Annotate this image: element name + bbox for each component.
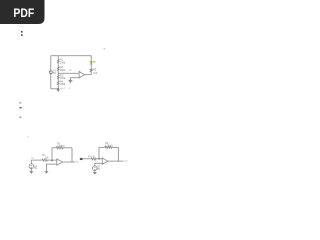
wire feedback down right (117, 147, 119, 161)
label R2 100k (60, 65, 66, 72)
wire feedback vertical left (51, 148, 53, 160)
ground at divider bottom (57, 89, 60, 91)
voltage source V1b (29, 164, 34, 169)
faint dot node label (104, 48, 106, 49)
resistor R3 (57, 75, 59, 79)
label R1c 100k (105, 142, 113, 147)
PDF badge (0, 0, 45, 24)
wire opamp output (84, 74, 91, 76)
wire output right (108, 160, 124, 162)
svg-text:5V: 5V (34, 167, 37, 170)
resistor R1c feedback (105, 146, 113, 148)
resistor R2 (57, 67, 59, 71)
wire divider vertical (57, 56, 59, 89)
label R5 (93, 69, 98, 75)
svg-text:5V: 5V (97, 168, 100, 171)
wire V2 to ground (94, 170, 96, 172)
colon (21, 31, 23, 36)
svg-text:out: out (124, 160, 128, 163)
wire V1b to input (30, 160, 32, 164)
LED D1 (90, 61, 96, 64)
svg-text:0: 0 (73, 81, 75, 83)
resistor R1 (57, 59, 59, 63)
wire feedback top right (63, 147, 72, 149)
label R1 100k (60, 58, 66, 65)
wire -input to ground (70, 78, 79, 80)
ground V2 (93, 171, 97, 173)
voltage source V1 (49, 71, 52, 74)
svg-text:100: 100 (93, 72, 98, 75)
label R2b (42, 154, 49, 160)
wire V1b to ground (30, 169, 32, 172)
label V2 (97, 166, 101, 171)
resistor R1b feedback (56, 147, 64, 149)
resistor R5 (LED series) (90, 69, 92, 72)
ground under -input (68, 79, 72, 81)
faint dot (27, 136, 28, 137)
wire feedback top left (52, 147, 56, 149)
wire feedback vertical (98, 147, 100, 159)
label R4 100k (60, 79, 66, 86)
svg-text:5V: 5V (53, 72, 56, 75)
bullet 3 (20, 117, 22, 119)
wire feedback top (99, 146, 105, 148)
label R1b 100k (57, 142, 65, 147)
label R3 100k (60, 73, 66, 80)
ground V1b (29, 170, 33, 172)
svg-text:100k: 100k (60, 60, 66, 64)
svg-text:R1 10k: R1 10k (88, 156, 96, 158)
svg-text:1.00kΩ: 1.00kΩ (57, 145, 65, 148)
svg-text:Va: Va (69, 69, 72, 72)
label R2c (88, 156, 96, 158)
wire LED branch vertical (90, 56, 92, 75)
svg-text:out: out (75, 160, 79, 163)
voltage source V2 (93, 166, 98, 171)
wire input horizontal (31, 159, 42, 161)
wire +input tap (58, 72, 79, 74)
wire +input down to ground (46, 164, 56, 171)
svg-text:10k: 10k (45, 157, 50, 160)
wire +input to V2 (95, 163, 102, 166)
op-amp U1c (102, 158, 108, 165)
wire top rail (51, 55, 91, 57)
bullet dash 2 (19, 107, 22, 108)
svg-text:1.00kΩ: 1.00kΩ (105, 144, 113, 147)
wire bottom rail (51, 88, 58, 90)
svg-text:PDF: PDF (13, 6, 34, 20)
resistor R2b input (42, 159, 48, 161)
ground +input left (45, 170, 49, 172)
op-amp U1 (79, 71, 84, 78)
wire output (62, 161, 75, 163)
wire feedback down (71, 148, 73, 162)
label V1 5V (53, 70, 57, 76)
resistor R2c input (91, 158, 96, 160)
svg-text:100k: 100k (60, 82, 66, 86)
wire left vertical (50, 56, 52, 89)
input node blob (80, 158, 83, 160)
node text above source (31, 158, 33, 159)
op-amp U1b (57, 159, 63, 166)
label V1b (34, 165, 38, 170)
junction divider bottom (58, 88, 59, 89)
svg-text:ref 0: ref 0 (60, 87, 65, 90)
wire input horizontal right (83, 158, 91, 160)
svg-text:100k: 100k (60, 68, 66, 72)
bullet 1 (19, 102, 21, 104)
junction minus node left (51, 160, 52, 161)
junction minus node right (98, 158, 99, 159)
resistor R4 (57, 81, 59, 85)
